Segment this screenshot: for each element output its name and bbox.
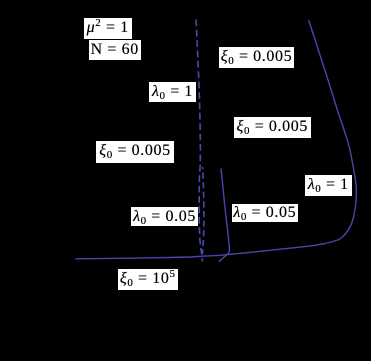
- label lambda0 = 1 (left): [149, 82, 196, 102]
- label N = 60: [89, 40, 141, 60]
- label xi0 = 0.005 (top right): [219, 47, 294, 68]
- label lambda0 = 0.05 (left): [131, 207, 198, 226]
- label xi0 = 0.005 (left): [96, 141, 174, 163]
- label xi0 = 10^5: [118, 269, 178, 290]
- label lambda0 = 1 (right): [305, 175, 352, 196]
- label xi0 = 0.005 (middle right): [234, 117, 311, 138]
- label lambda0 = 0.05 (right): [232, 204, 298, 222]
- dashed curve second branch (right of main): [202, 167, 204, 255]
- label mu^2 = 1: [84, 18, 132, 39]
- solid curve lambda0=0.05 (with bottom-left hook): [219, 169, 229, 261]
- solid curve lambda0=1 (right big curve with bottom horizontal branch): [76, 21, 356, 259]
- dashed curve lambda0=1 (main, splits left branch): [196, 19, 202, 261]
